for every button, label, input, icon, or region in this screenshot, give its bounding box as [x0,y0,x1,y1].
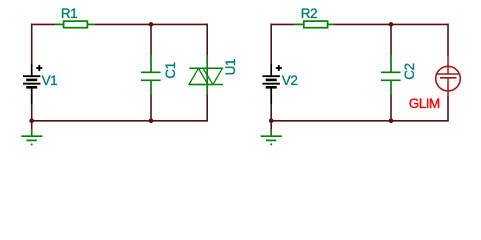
resistor R2 [294,21,334,28]
wire left rail lower [31,104,33,121]
svg-text:R2: R2 [301,6,318,21]
node junction dot bottom-left right circuit (ground node) [269,119,274,124]
resistor R1 [55,21,94,28]
svg-text:R1: R1 [61,6,77,21]
svg-text:V1: V1 [42,73,58,88]
ground left [21,129,42,144]
node junction dot top of C2 [389,22,394,27]
svg-text:C1: C1 [163,62,178,78]
neon lamp GLIM [436,56,461,95]
capacitor C1 [141,55,161,95]
wire C2 branch lower [390,95,392,122]
wire left rail upper (V1 top) [31,24,33,65]
wire left rail upper right circuit (V2 top) [270,24,272,65]
svg-text:V2: V2 [282,73,298,88]
node junction dot bottom-left (ground node) [29,119,34,124]
svg-text:GLIM: GLIM [409,96,440,111]
wire top rail right segment [94,23,208,25]
wire right rail lower (GLIM bottom) [447,95,449,121]
wire top rail left segment to R1 [31,23,55,25]
wire C2 branch upper [390,24,392,55]
node junction dot bottom of C1 [149,119,154,124]
wire right rail upper (GLIM top) [447,24,449,57]
wire top rail right segment [334,23,449,25]
ground right [261,129,282,144]
capacitor C2 [381,55,401,95]
wire ground stub left [31,121,33,130]
wire C1 branch lower [150,95,152,122]
battery V1 [23,64,42,104]
wire top rail left segment to R2 [271,23,295,25]
svg-text:U1: U1 [223,59,238,75]
wire left rail lower right circuit [270,104,272,121]
wire bottom rail right circuit [271,120,449,122]
wire right rail upper (U1 top) [206,24,208,56]
wire ground stub right [270,121,272,130]
wire C1 branch upper [150,24,152,55]
node junction dot top of C1 [149,22,154,27]
node junction dot bottom of C2 [389,119,394,124]
wire bottom rail left circuit [32,120,208,122]
svg-text:C2: C2 [402,63,417,79]
diac U1 [189,55,223,94]
wire right rail lower (U1 bottom) [206,94,208,121]
battery V2 [263,64,282,104]
